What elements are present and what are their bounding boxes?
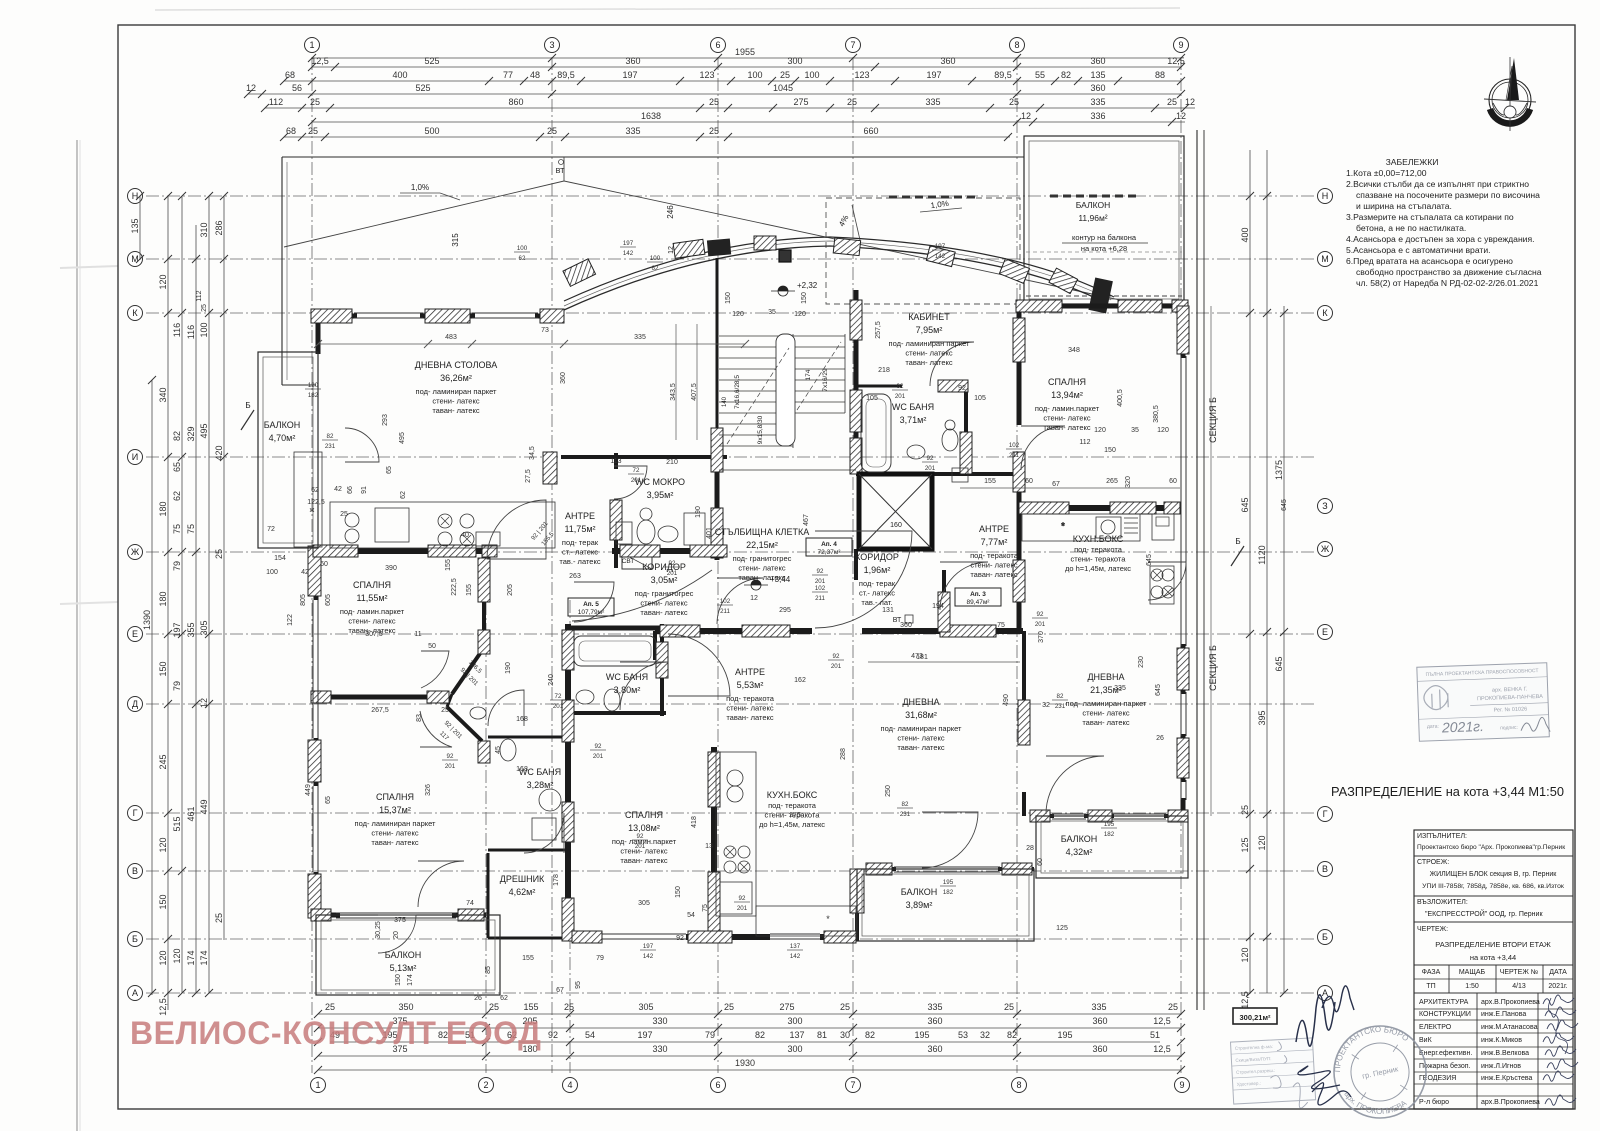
svg-text:чл. 58(2) от Наредба N РД-02-0: чл. 58(2) от Наредба N РД-02-02-2/26.01.… — [1356, 278, 1539, 288]
wc 3,71 fixtures — [861, 394, 968, 482]
svg-text:2021г.: 2021г. — [1441, 718, 1484, 735]
svg-text:100: 100 — [650, 255, 661, 262]
svg-text:БАЛКОН: БАЛКОН — [901, 887, 937, 897]
bold dashed contour lines at M axis — [889, 196, 976, 199]
svg-text:645: 645 — [1274, 656, 1284, 671]
svg-text:8: 8 — [1014, 40, 1019, 50]
svg-text:25: 25 — [709, 126, 719, 136]
svg-text:335: 335 — [1091, 1002, 1106, 1012]
svg-text:таван- латекс: таван- латекс — [640, 608, 688, 617]
svg-text:12,5: 12,5 — [1240, 991, 1250, 1009]
svg-text:под- терак: под- терак — [562, 538, 599, 547]
svg-text:89,47м²: 89,47м² — [967, 599, 991, 606]
svg-text:197: 197 — [172, 622, 182, 637]
svg-text:11,96м²: 11,96м² — [1078, 213, 1107, 223]
svg-text:1120: 1120 — [1257, 545, 1267, 564]
svg-text:73: 73 — [541, 327, 549, 334]
svg-text:83: 83 — [416, 714, 423, 722]
svg-text:25: 25 — [325, 1002, 335, 1012]
svg-text:под- ламиниран паркет: под- ламиниран паркет — [416, 387, 498, 396]
VT vent symbols — [622, 558, 913, 624]
svg-text:ЕЛЕКТРО: ЕЛЕКТРО — [1419, 1024, 1452, 1031]
door living to balcony — [345, 428, 379, 462]
svg-text:Рег. № 01026: Рег. № 01026 — [1493, 706, 1527, 713]
svg-text:150: 150 — [158, 661, 168, 676]
wc 3,80 fixtures — [574, 636, 656, 711]
svg-text:25: 25 — [489, 1002, 499, 1012]
balcony 11,96 top right outline — [1024, 136, 1184, 304]
svg-text:72,37м²: 72,37м² — [818, 549, 842, 556]
svg-text:348: 348 — [1068, 347, 1080, 354]
svg-text:стени- латекс: стени- латекс — [432, 397, 479, 406]
svg-text:360: 360 — [900, 622, 912, 629]
svg-text:под- ламиниран паркет: под- ламиниран паркет — [881, 724, 963, 733]
svg-text:БАЛКОН: БАЛКОН — [264, 420, 300, 430]
svg-text:197: 197 — [622, 70, 637, 80]
svg-text:40: 40 — [461, 532, 469, 539]
svg-text:320: 320 — [1125, 476, 1132, 488]
svg-text:54: 54 — [585, 1030, 595, 1040]
interior chain living room vertical — [675, 324, 677, 440]
svg-text:арх.В.Прокопиева: арх.В.Прокопиева — [1481, 999, 1540, 1006]
svg-text:246: 246 — [666, 205, 675, 219]
svg-text:82: 82 — [755, 1030, 765, 1040]
grid bubbles left column letters — [128, 189, 143, 1001]
room label dnevna 21,35 — [1066, 672, 1148, 727]
room label dnevna stolova — [415, 360, 497, 415]
svg-text:12: 12 — [750, 595, 758, 602]
apartment box Ap.5 — [568, 598, 614, 616]
room label stairwell — [715, 527, 809, 582]
title block texts — [1417, 833, 1568, 1106]
svg-text:тав.- лат.: тав.- лат. — [861, 598, 892, 607]
svg-text:З: З — [1322, 501, 1327, 511]
svg-text:89,5: 89,5 — [557, 70, 575, 80]
wall: V10 between bedroom 13,08 and kitchen — [711, 747, 717, 934]
svg-text:160: 160 — [890, 522, 902, 529]
svg-text:211: 211 — [815, 595, 825, 602]
svg-text:112: 112 — [269, 97, 283, 107]
svg-text:495: 495 — [199, 423, 209, 438]
svg-text:Ап. 4: Ап. 4 — [821, 541, 837, 548]
svg-text:45: 45 — [495, 746, 502, 754]
svg-text:65: 65 — [386, 466, 393, 474]
svg-text:483: 483 — [445, 334, 457, 341]
svg-text:Д: Д — [132, 699, 138, 709]
svg-text:67: 67 — [1052, 481, 1060, 488]
svg-text:231: 231 — [1055, 703, 1066, 710]
svg-text:инж.Е.Кръстева: инж.Е.Кръстева — [1481, 1075, 1533, 1082]
svg-text:Ж: Ж — [1321, 544, 1330, 554]
svg-text:250: 250 — [885, 785, 892, 797]
kitchen bottom-left fixtures — [716, 752, 756, 916]
svg-text:805: 805 — [300, 594, 307, 606]
svg-text:92: 92 — [637, 833, 644, 840]
svg-text:1: 1 — [315, 1080, 320, 1090]
svg-text:под- ламин.паркет: под- ламин.паркет — [340, 607, 405, 616]
svg-text:335: 335 — [925, 97, 940, 107]
svg-text:105: 105 — [866, 395, 878, 402]
door kabinet — [930, 342, 974, 386]
svg-text:201: 201 — [667, 570, 678, 577]
svg-text:150: 150 — [395, 974, 402, 986]
svg-text:31,68м²: 31,68м² — [905, 710, 937, 720]
kitchen right fixtures — [1022, 514, 1174, 604]
svg-text:ЧЕРТЕЖ:: ЧЕРТЕЖ: — [1417, 926, 1448, 933]
svg-text:420: 420 — [214, 445, 224, 460]
svg-text:КАБИНЕТ: КАБИНЕТ — [908, 312, 950, 322]
svg-text:79: 79 — [705, 1030, 715, 1040]
svg-text:95: 95 — [575, 981, 582, 989]
svg-text:таван- латекс: таван- латекс — [1043, 423, 1091, 432]
wall: left exterior top piece — [316, 316, 321, 354]
svg-text:стени- латекс: стени- латекс — [348, 617, 395, 626]
svg-text:400: 400 — [392, 70, 407, 80]
svg-text:30: 30 — [840, 1030, 850, 1040]
svg-text:13: 13 — [705, 843, 713, 850]
door bedroom 13,94 — [1021, 426, 1065, 470]
svg-text:32: 32 — [980, 1030, 990, 1040]
svg-text:25: 25 — [310, 97, 320, 107]
wall: stairwell right / elevator left (V5) — [854, 290, 859, 474]
svg-text:СВТ: СВТ — [622, 558, 635, 565]
svg-text:дата:: дата: — [1427, 724, 1439, 730]
grid bubbles bottom row numbers — [311, 1078, 1190, 1093]
svg-text:113: 113 — [610, 458, 621, 465]
wall: kabinet bottom — [858, 385, 902, 388]
svg-text:WC БАНЯ: WC БАНЯ — [606, 672, 648, 682]
hatched wall piers — [308, 300, 1189, 943]
svg-text:467: 467 — [803, 514, 810, 526]
svg-text:8: 8 — [1016, 1080, 1021, 1090]
svg-text:142: 142 — [935, 253, 946, 260]
svg-text:12: 12 — [199, 698, 209, 708]
svg-text:55: 55 — [1035, 70, 1045, 80]
svg-text:62: 62 — [311, 487, 319, 494]
svg-text:75: 75 — [702, 904, 709, 912]
svg-text:ДНЕВНА СТОЛОВА: ДНЕВНА СТОЛОВА — [415, 360, 497, 370]
svg-text:СПАЛНЯ: СПАЛНЯ — [376, 792, 414, 802]
svg-text:25: 25 — [547, 126, 557, 136]
svg-text:195: 195 — [1104, 821, 1115, 828]
svg-text:293: 293 — [382, 414, 389, 426]
door balcony 5,13 — [378, 915, 416, 953]
wall: wc 3,80 top — [568, 626, 662, 631]
internal dimension numbers — [266, 292, 1288, 1002]
svg-text:245: 245 — [158, 754, 168, 769]
svg-text:240: 240 — [548, 674, 555, 686]
svg-text:БАЛКОН: БАЛКОН — [1061, 834, 1097, 844]
door bedroom 15,37 corridor — [420, 711, 452, 747]
svg-text:УПИ III-7858г, 7858д, 7858е, к: УПИ III-7858г, 7858д, 7858е, кв. 686, кв… — [1422, 883, 1564, 890]
title block signatures — [1543, 995, 1578, 1105]
svg-text:120: 120 — [172, 948, 182, 963]
svg-text:92: 92 — [595, 743, 602, 750]
svg-text:300: 300 — [787, 1016, 802, 1026]
svg-text:390: 390 — [385, 565, 397, 572]
svg-text:стени- латекс: стени- латекс — [738, 564, 785, 573]
svg-text:360: 360 — [1090, 83, 1105, 93]
svg-text:Ж: Ж — [131, 547, 140, 557]
wall: antre 5,53 left stub — [653, 631, 657, 660]
svg-text:162: 162 — [794, 677, 806, 684]
svg-text:ЧЕРТЕЖ №: ЧЕРТЕЖ № — [1500, 969, 1539, 976]
svg-text:82: 82 — [327, 433, 334, 440]
svg-text:82: 82 — [1007, 1030, 1017, 1040]
wall: dreshnik left — [487, 853, 490, 938]
svg-text:82: 82 — [172, 431, 182, 441]
svg-text:5.Асансьора е с автоматични вр: 5.Асансьора е с автоматични врати. — [1346, 245, 1491, 255]
svg-text:125: 125 — [1240, 837, 1250, 852]
room label bedroom 15,37 — [355, 792, 437, 847]
svg-text:СПАЛНЯ: СПАЛНЯ — [1048, 377, 1086, 387]
svg-text:30,25: 30,25 — [375, 921, 382, 939]
svg-text:К: К — [132, 308, 138, 318]
wall: wc mokro top — [561, 455, 727, 459]
windows (double thin lines) — [313, 313, 1186, 939]
svg-text:12,5: 12,5 — [311, 56, 329, 66]
svg-text:2.Всички стълби да се изпълнят: 2.Всички стълби да се изпълнят при стрик… — [1346, 179, 1529, 189]
svg-text:300: 300 — [787, 1044, 802, 1054]
svg-text:42: 42 — [301, 569, 309, 576]
svg-text:25: 25 — [1240, 805, 1250, 815]
svg-text:таван- латекс: таван- латекс — [1082, 718, 1130, 727]
svg-text:340: 340 — [158, 387, 168, 402]
svg-text:336: 336 — [1090, 111, 1105, 121]
grid bubbles top row numbers — [305, 38, 1189, 53]
svg-text:5,13м²: 5,13м² — [390, 963, 417, 973]
svg-text:1390: 1390 — [142, 610, 152, 630]
door koridor 1,96 to dnevna — [815, 531, 912, 628]
svg-text:137: 137 — [790, 943, 801, 950]
room label dnevna 31,68 — [881, 697, 963, 752]
svg-text:120: 120 — [158, 274, 168, 289]
svg-text:350: 350 — [398, 1002, 413, 1012]
svg-text:АРХИТЕКТУРА: АРХИТЕКТУРА — [1419, 999, 1469, 1006]
svg-text:*: * — [826, 914, 830, 924]
svg-text:ВЕЛИОС-КОНСУЛТ ЕООД: ВЕЛИОС-КОНСУЛТ ЕООД — [130, 1015, 541, 1051]
svg-text:3: 3 — [549, 40, 554, 50]
svg-text:395: 395 — [1257, 710, 1267, 725]
svg-text:20: 20 — [393, 931, 400, 939]
svg-text:120: 120 — [158, 950, 168, 965]
svg-text:тав.- латекс: тав.- латекс — [559, 557, 600, 566]
svg-text:7x16/29: 7x16/29 — [822, 368, 829, 392]
wall: corridor chamfer A — [452, 652, 481, 694]
svg-text:22,15м²: 22,15м² — [746, 540, 778, 550]
svg-text:7: 7 — [850, 40, 855, 50]
svg-text:645: 645 — [1146, 554, 1153, 566]
svg-text:222,5: 222,5 — [451, 578, 458, 596]
svg-text:3,89м²: 3,89м² — [906, 900, 933, 910]
svg-text:МАЩАБ: МАЩАБ — [1459, 969, 1486, 976]
svg-text:25: 25 — [340, 511, 348, 518]
level mark +3,44 — [751, 580, 761, 585]
door antre to living big — [487, 500, 546, 559]
wc 3,28 fixtures — [470, 707, 561, 840]
room label bedroom 13,94 — [1035, 377, 1100, 432]
svg-text:СЕКЦИЯ Б: СЕКЦИЯ Б — [1208, 397, 1218, 443]
svg-text:таван- латекс: таван- латекс — [905, 358, 953, 367]
svg-text:А: А — [132, 988, 138, 998]
stair landing strip — [776, 334, 795, 446]
room label koridor 1,96 — [855, 552, 899, 607]
room label balcony 4,32 — [1061, 834, 1097, 857]
svg-text:+2,32: +2,32 — [797, 281, 818, 290]
wall: bedroom 13,94 bottom (H8) — [1019, 505, 1180, 511]
svg-text:100: 100 — [199, 322, 209, 337]
wall: bottom of bedroom 13,08 / kitchen — [572, 934, 602, 940]
level mark +2,32 — [778, 286, 788, 291]
wall: corridor chamfer B — [447, 707, 482, 741]
svg-text:400: 400 — [1240, 227, 1250, 242]
svg-text:1955: 1955 — [735, 47, 755, 57]
svg-text:360: 360 — [560, 372, 567, 384]
svg-text:155: 155 — [466, 584, 473, 596]
svg-text:645: 645 — [1240, 497, 1250, 512]
svg-text:КОРИДОР: КОРИДОР — [855, 552, 899, 562]
svg-text:360: 360 — [625, 56, 640, 66]
svg-text:М: М — [131, 254, 139, 264]
svg-text:таван- латекс: таван- латекс — [897, 743, 945, 752]
svg-text:525: 525 — [424, 56, 439, 66]
room label bedroom 13,08 — [612, 810, 677, 865]
svg-text:арх.В.Прокопиева: арх.В.Прокопиева — [1481, 1099, 1540, 1106]
svg-text:до h=1,45м, латекс: до h=1,45м, латекс — [759, 820, 825, 829]
svg-text:стени- латекс: стени- латекс — [1043, 414, 1090, 423]
svg-text:3,71м²: 3,71м² — [900, 415, 927, 425]
svg-text:15,37м²: 15,37м² — [379, 805, 411, 815]
svg-text:ВТ: ВТ — [555, 166, 565, 175]
svg-text:под- гранитогрес: под- гранитогрес — [733, 554, 792, 563]
svg-text:150: 150 — [675, 886, 682, 898]
svg-text:Г: Г — [1323, 809, 1328, 819]
apartment box Ap.4 — [806, 538, 852, 556]
svg-text:79: 79 — [596, 955, 604, 962]
svg-text:182: 182 — [308, 392, 319, 399]
svg-text:140: 140 — [722, 396, 728, 407]
svg-text:12: 12 — [1185, 97, 1195, 107]
svg-text:174: 174 — [186, 950, 196, 965]
svg-text:178: 178 — [553, 874, 560, 886]
svg-text:142: 142 — [623, 250, 634, 257]
svg-text:211: 211 — [1009, 452, 1019, 459]
svg-text:1,0%: 1,0% — [411, 183, 429, 192]
room label wc 3,28 — [519, 767, 561, 790]
wall: central long horizontal (H7) — [655, 628, 812, 634]
svg-text:4: 4 — [567, 1080, 572, 1090]
svg-text:449: 449 — [199, 799, 209, 814]
svg-text:286: 286 — [214, 220, 224, 235]
svg-text:62: 62 — [400, 491, 407, 499]
svg-text:25: 25 — [709, 97, 719, 107]
svg-text:120: 120 — [794, 311, 806, 318]
wall: wc 3,80 right — [660, 624, 664, 716]
svg-text:82: 82 — [865, 1030, 875, 1040]
svg-text:92: 92 — [927, 455, 934, 462]
svg-text:арх. ВЕНКА Г.: арх. ВЕНКА Г. — [1492, 686, 1528, 693]
svg-text:500: 500 — [424, 126, 439, 136]
svg-text:131: 131 — [882, 607, 894, 614]
svg-text:92: 92 — [1037, 611, 1044, 618]
svg-text:2021г.: 2021г. — [1548, 983, 1567, 990]
svg-text:79: 79 — [172, 681, 182, 691]
svg-text:150: 150 — [725, 292, 732, 304]
wall: bottom of dnevna 31,68 / balcony 3,89 top — [866, 867, 896, 871]
svg-text:335: 335 — [1090, 97, 1105, 107]
north arrow compass — [1484, 57, 1536, 131]
svg-text:контур на балкона: контур на балкона — [1072, 233, 1137, 242]
svg-text:КУХН.БОКС: КУХН.БОКС — [1073, 534, 1124, 544]
bottom dimension band — [314, 1002, 1185, 1074]
scan page edge artifacts — [60, 8, 1180, 1131]
left dimension band — [130, 192, 228, 1016]
svg-text:СЕКЦИЯ Б: СЕКЦИЯ Б — [1208, 645, 1218, 691]
svg-text:1,96м²: 1,96м² — [864, 565, 891, 575]
svg-text:72: 72 — [633, 467, 640, 474]
svg-text:197: 197 — [623, 240, 634, 247]
fraction door-size labels — [305, 240, 1117, 960]
svg-text:116: 116 — [186, 325, 196, 339]
svg-text:120: 120 — [1157, 427, 1169, 434]
svg-text:ДНЕВНА: ДНЕВНА — [902, 697, 939, 707]
svg-text:201: 201 — [925, 465, 936, 472]
svg-text:77: 77 — [503, 70, 513, 80]
svg-text:194: 194 — [932, 603, 944, 610]
svg-text:32: 32 — [1042, 702, 1050, 709]
svg-text:300: 300 — [787, 56, 802, 66]
svg-text:267,5: 267,5 — [371, 707, 389, 714]
svg-text:201: 201 — [1035, 621, 1046, 628]
wall: V7 below H7 — [1022, 631, 1026, 745]
svg-text:122,5: 122,5 — [307, 499, 325, 506]
svg-text:РАЗПРЕДЕЛЕНИЕ на кота +3,44 М: РАЗПРЕДЕЛЕНИЕ на кота +3,44 М1:50 — [1331, 784, 1564, 799]
svg-text:201: 201 — [631, 477, 642, 484]
svg-text:25: 25 — [724, 1002, 734, 1012]
svg-text:65: 65 — [172, 462, 182, 472]
svg-text:102: 102 — [1009, 442, 1020, 449]
svg-text:под- ламиниран паркет: под- ламиниран паркет — [889, 339, 971, 348]
svg-text:таван- латекс: таван- латекс — [970, 570, 1018, 579]
svg-text:197: 197 — [926, 70, 941, 80]
svg-text:стени- латекс: стени- латекс — [1082, 709, 1129, 718]
svg-text:231: 231 — [900, 811, 911, 818]
svg-text:Енерг.ефективн.: Енерг.ефективн. — [1419, 1050, 1472, 1057]
svg-text:155: 155 — [522, 955, 534, 962]
svg-text:92: 92 — [739, 895, 746, 902]
interior chain dnevna — [868, 661, 1020, 663]
svg-text:182: 182 — [1104, 831, 1115, 838]
room label wc 3,80 — [606, 672, 648, 695]
svg-text:418: 418 — [691, 816, 698, 828]
svg-text:85: 85 — [485, 966, 492, 974]
svg-text:75: 75 — [186, 524, 196, 534]
wall: balcony 3,89 left pier wall — [855, 869, 859, 941]
svg-text:300,21м²: 300,21м² — [1240, 1013, 1271, 1022]
svg-text:67: 67 — [556, 987, 564, 994]
svg-text:100: 100 — [804, 70, 819, 80]
stair direction dashed lines — [727, 342, 841, 444]
svg-text:68: 68 — [286, 126, 296, 136]
svg-text:515: 515 — [172, 816, 182, 831]
door bedroom 15,37 balcony — [418, 861, 464, 907]
svg-text:Проектантско бюро "Арх. Прокоп: Проектантско бюро "Арх. Прокопиева"гр.Пе… — [1417, 843, 1565, 851]
svg-text:265: 265 — [1106, 478, 1118, 485]
door bedroom 11,55 — [421, 651, 449, 688]
svg-text:197: 197 — [643, 943, 654, 950]
svg-text:195: 195 — [914, 1030, 929, 1040]
svg-text:13,08м²: 13,08м² — [628, 823, 660, 833]
